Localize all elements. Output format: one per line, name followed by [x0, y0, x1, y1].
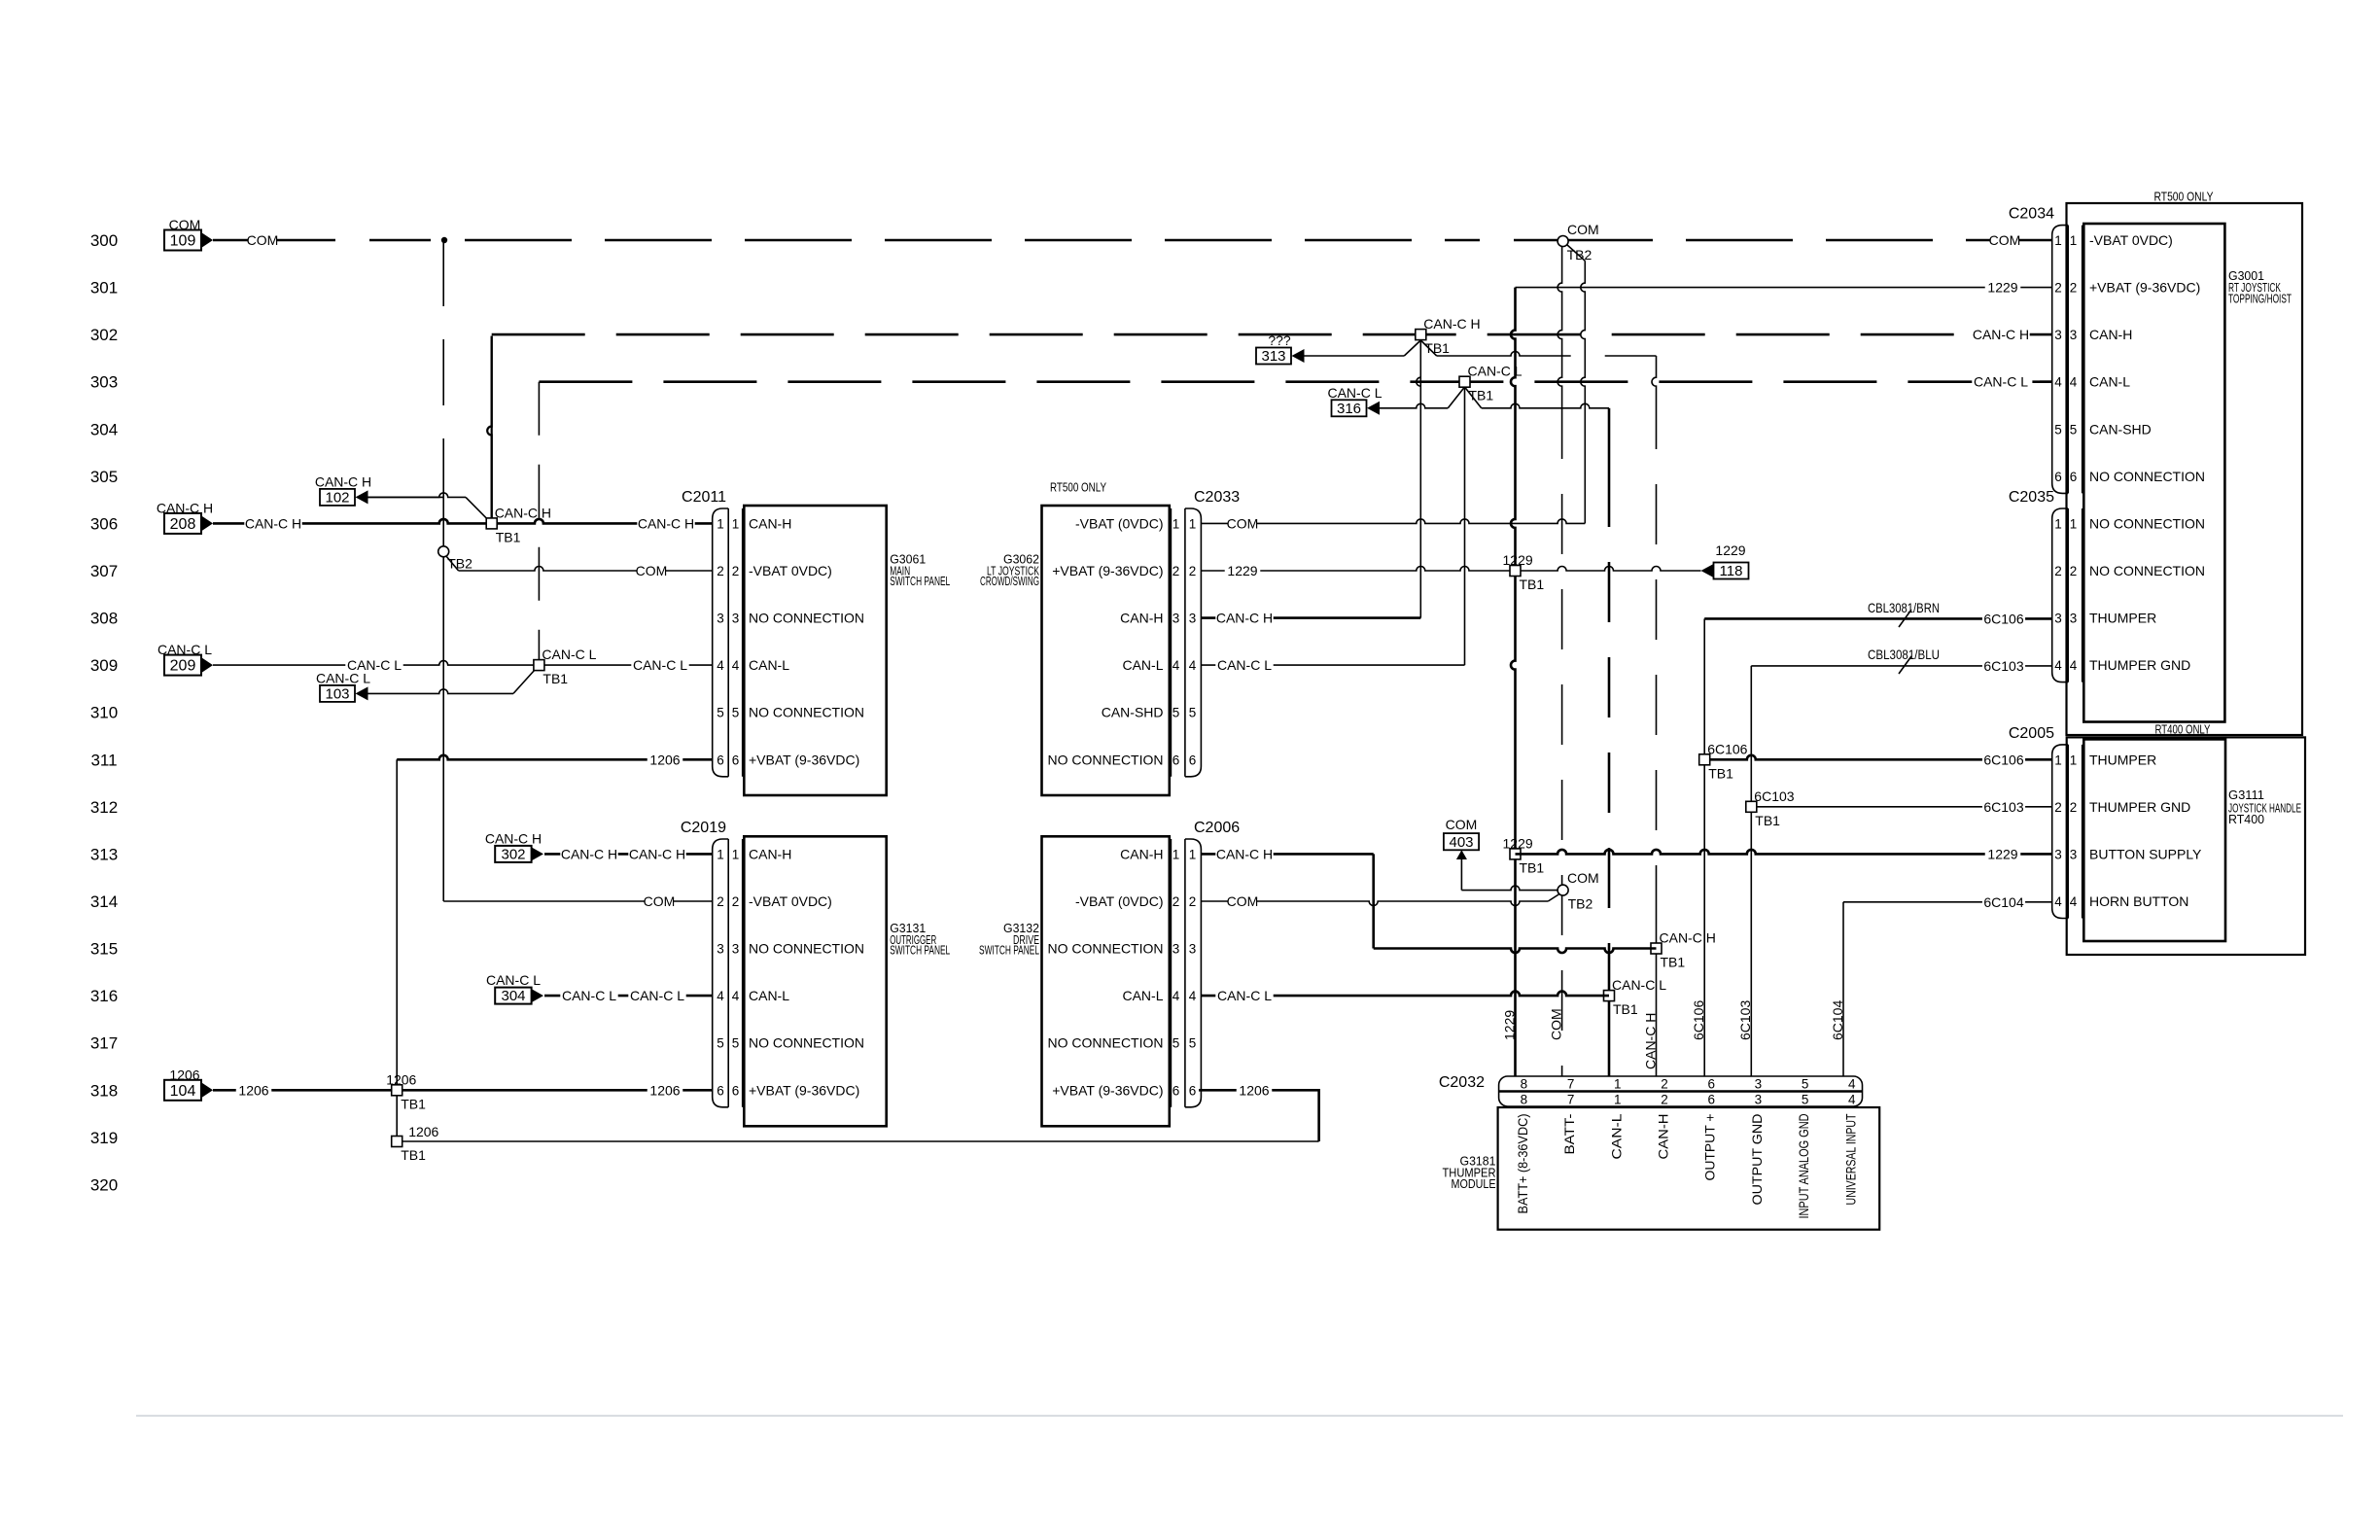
- svg-text:THUMPER: THUMPER: [2089, 752, 2156, 767]
- svg-text:2: 2: [1189, 564, 1197, 578]
- svg-text:+VBAT (9-36VDC): +VBAT (9-36VDC): [1052, 563, 1163, 578]
- svg-text:4: 4: [732, 989, 740, 1003]
- svg-text:3: 3: [2054, 328, 2062, 342]
- svg-text:1: 1: [1614, 1093, 1622, 1107]
- svg-text:INPUT ANALOG GND: INPUT ANALOG GND: [1796, 1114, 1811, 1219]
- svg-text:308: 308: [90, 610, 118, 628]
- svg-text:1: 1: [732, 516, 740, 531]
- svg-text:HORN BUTTON: HORN BUTTON: [2089, 893, 2188, 909]
- in-page reference 304 (CAN-C L) to C2019 pin 4: [486, 972, 713, 1004]
- svg-text:7: 7: [1567, 1093, 1575, 1107]
- svg-text:307: 307: [90, 562, 118, 580]
- svg-text:5: 5: [1189, 1036, 1197, 1051]
- svg-text:TOPPING/HOIST: TOPPING/HOIST: [2228, 292, 2292, 306]
- svg-text:1206: 1206: [408, 1124, 438, 1139]
- svg-text:3: 3: [2070, 328, 2078, 342]
- svg-text:NO CONNECTION: NO CONNECTION: [749, 611, 864, 626]
- svg-text:2: 2: [732, 894, 740, 909]
- svg-text:6C106: 6C106: [1983, 611, 2023, 626]
- svg-text:2: 2: [2054, 564, 2062, 578]
- svg-text:OUTPUT GND: OUTPUT GND: [1749, 1114, 1765, 1206]
- svg-text:118: 118: [1720, 563, 1743, 579]
- svg-text:-VBAT 0VDC): -VBAT 0VDC): [2089, 232, 2173, 248]
- svg-text:3: 3: [1189, 612, 1197, 626]
- off-page reference 104 (1206): [164, 1067, 213, 1101]
- svg-text:4: 4: [2054, 894, 2062, 909]
- svg-text:6: 6: [1189, 752, 1197, 767]
- svg-text:COM: COM: [247, 232, 279, 248]
- svg-text:BUTTON SUPPLY: BUTTON SUPPLY: [2089, 846, 2202, 861]
- svg-text:304: 304: [90, 420, 118, 438]
- wire CAN-C L (row 309) from ref 209 to C2011 pin 4: [213, 657, 713, 674]
- svg-text:CAN-SHD: CAN-SHD: [1102, 705, 1164, 720]
- svg-text:1: 1: [1172, 516, 1180, 531]
- svg-text:2: 2: [2070, 281, 2078, 296]
- svg-text:COM: COM: [1446, 817, 1478, 832]
- (decorative) bottom separator: [136, 1416, 2343, 1417]
- svg-text:2: 2: [717, 564, 724, 578]
- svg-text:CAN-C L: CAN-C L: [1612, 977, 1666, 993]
- wire CAN-C H riser (x=1703.5) to C2032 pin 2: [1642, 356, 1658, 1076]
- svg-text:4: 4: [1848, 1093, 1856, 1107]
- svg-text:3: 3: [717, 942, 724, 957]
- wire 1206 (row 318) from ref 104 to C2019 pin 6: [213, 1082, 713, 1099]
- svg-text:CAN-C H: CAN-C H: [1423, 316, 1480, 332]
- svg-text:4: 4: [1848, 1077, 1856, 1092]
- svg-text:3: 3: [1755, 1077, 1763, 1092]
- svg-text:CAN-C L: CAN-C L: [1327, 385, 1382, 401]
- node: junction dot on COM trunk: [441, 237, 447, 243]
- svg-text:6: 6: [732, 752, 740, 767]
- svg-text:8: 8: [1521, 1077, 1528, 1092]
- svg-text:+VBAT (9-36VDC): +VBAT (9-36VDC): [749, 1082, 859, 1098]
- svg-text:302: 302: [90, 326, 118, 344]
- svg-text:4: 4: [717, 658, 724, 673]
- svg-text:306: 306: [90, 514, 118, 533]
- svg-text:CAN-C H: CAN-C H: [561, 846, 617, 861]
- svg-text:+VBAT (9-36VDC): +VBAT (9-36VDC): [1052, 1082, 1163, 1098]
- svg-text:CAN-C H: CAN-C H: [1642, 1013, 1658, 1069]
- svg-text:TB2: TB2: [1568, 896, 1593, 912]
- svg-text:COM: COM: [1567, 870, 1599, 886]
- svg-text:SWITCH PANEL: SWITCH PANEL: [890, 943, 950, 958]
- connector C2006: [1171, 820, 1240, 1107]
- svg-text:BATT-: BATT-: [1561, 1113, 1577, 1154]
- svg-text:6: 6: [2070, 470, 2078, 484]
- svg-text:1: 1: [1614, 1077, 1622, 1092]
- svg-text:6C103: 6C103: [1754, 788, 1794, 804]
- in-page reference 102 (CAN-C H) with stub to TB1: [315, 473, 492, 523]
- svg-text:320: 320: [90, 1175, 118, 1194]
- wire COM (row 314) from C2006 pin 2 to TB2 diagonal: [1201, 893, 1548, 910]
- svg-text:CAN-L: CAN-L: [749, 988, 789, 1003]
- wire 1206 riser (x=408.2): [396, 759, 398, 1141]
- svg-text:CAN-L: CAN-L: [749, 657, 789, 673]
- svg-text:1229: 1229: [1987, 280, 2017, 296]
- svg-text:2: 2: [2054, 800, 2062, 815]
- svg-text:109: 109: [170, 233, 196, 250]
- vertical wire labels above C2032: [1501, 1000, 1845, 1040]
- svg-text:3: 3: [732, 942, 740, 957]
- wire CAN-C H (row 308) from C2033 pin 3 up to trunk TB1: [1201, 334, 1420, 626]
- svg-text:4: 4: [2054, 658, 2062, 673]
- svg-text:CAN-SHD: CAN-SHD: [2089, 421, 2152, 437]
- svg-text:6C106: 6C106: [1707, 741, 1747, 756]
- svg-text:4: 4: [1189, 989, 1197, 1003]
- wire 1229 (row 313) from TB1 to C2005 pin 3: [1516, 846, 2052, 862]
- svg-text:1: 1: [717, 847, 724, 861]
- svg-text:103: 103: [325, 685, 349, 702]
- label G3131 OUTRIGGER SWITCH PANEL: [890, 921, 950, 958]
- svg-text:TB1: TB1: [1708, 765, 1733, 781]
- wire COM vertical (x=456.2) from trunk to C2019 pin 2: [443, 240, 713, 910]
- svg-text:+VBAT (9-36VDC): +VBAT (9-36VDC): [749, 752, 859, 767]
- svg-text:COM: COM: [1989, 232, 2021, 248]
- svg-text:5: 5: [717, 706, 724, 720]
- svg-text:316: 316: [1337, 401, 1361, 417]
- svg-text:3: 3: [717, 612, 724, 626]
- svg-text:4: 4: [2070, 375, 2078, 390]
- svg-text:TB2: TB2: [447, 555, 472, 571]
- svg-text:1: 1: [2070, 233, 2078, 248]
- svg-text:5: 5: [2070, 422, 2078, 437]
- svg-text:CAN-C L: CAN-C L: [1217, 988, 1272, 1003]
- svg-text:6: 6: [732, 1083, 740, 1098]
- svg-text:315: 315: [90, 940, 118, 959]
- svg-text:2: 2: [732, 564, 740, 578]
- svg-text:CAN-C H: CAN-C H: [245, 515, 301, 531]
- wire 1206 (lower) from TB1 to C2006 pin 6: [397, 1082, 1318, 1141]
- svg-text:C2034: C2034: [2009, 206, 2054, 223]
- wire 6C106 riser (x=1753.2) to C2032 pin 6: [1703, 618, 1705, 1076]
- device G3001 RT JOYSTICK TOPPING/HOIST (box): [2083, 224, 2292, 722]
- in-page reference 118 (1229): [1701, 542, 1749, 579]
- svg-text:4: 4: [1172, 658, 1180, 673]
- svg-text:TB1: TB1: [1520, 577, 1545, 592]
- connector C2005: [2009, 725, 2202, 919]
- svg-text:CAN-H: CAN-H: [1656, 1114, 1671, 1160]
- svg-text:2: 2: [1189, 894, 1197, 909]
- svg-text:TB1: TB1: [1755, 813, 1780, 828]
- svg-text:208: 208: [170, 516, 196, 533]
- svg-text:CAN-C H: CAN-C H: [485, 830, 542, 846]
- svg-text:CAN-H: CAN-H: [2089, 327, 2132, 342]
- terminal TB1 (1206, y=1174): [392, 1124, 439, 1163]
- svg-text:CROWD/SWING: CROWD/SWING: [980, 574, 1039, 588]
- svg-text:4: 4: [1189, 658, 1197, 673]
- svg-text:1: 1: [2054, 752, 2062, 767]
- svg-text:6: 6: [1172, 752, 1180, 767]
- svg-text:8: 8: [1521, 1093, 1528, 1107]
- svg-text:C2032: C2032: [1439, 1074, 1485, 1091]
- svg-text:NO CONNECTION: NO CONNECTION: [749, 705, 864, 720]
- terminal TB1 (CAN-C H, x=505.7): [486, 505, 551, 544]
- svg-text:4: 4: [717, 989, 724, 1003]
- svg-text:6C103: 6C103: [1737, 1000, 1753, 1040]
- off-page reference 109 (COM): [164, 217, 213, 251]
- wire COM vertical (x=1606.6) from TB2 to C2032 pin 7: [1557, 246, 1562, 1076]
- terminal TB1 (CAN-C L on trunk row 303): [1459, 364, 1522, 403]
- svg-text:CAN-H: CAN-H: [1120, 611, 1163, 626]
- svg-text:COM: COM: [1227, 893, 1259, 909]
- svg-text:1206: 1206: [238, 1082, 268, 1098]
- terminal TB1 (6C103, row 312): [1746, 788, 1795, 828]
- svg-text:RT400: RT400: [2228, 812, 2264, 826]
- svg-text:317: 317: [90, 1034, 118, 1053]
- wire 6C104 (row 314) to C2005 pin 4 and riser to C2032 pin 4: [1843, 893, 2052, 1076]
- svg-text:SWITCH PANEL: SWITCH PANEL: [979, 943, 1039, 958]
- terminal TB1 (CAN-C H, row 315): [1651, 930, 1716, 970]
- connector C2011: [682, 489, 743, 777]
- wire 6C103 (row 312) from TB1 to C2005 pin 2: [1751, 798, 2051, 815]
- svg-text:TB1: TB1: [496, 529, 521, 544]
- svg-text:1: 1: [732, 847, 740, 861]
- svg-text:5: 5: [1802, 1077, 1809, 1092]
- in-page reference 302 (CAN-C H) to C2019 pin 1: [485, 830, 713, 862]
- svg-text:1229: 1229: [1503, 552, 1533, 568]
- svg-text:4: 4: [732, 658, 740, 673]
- svg-text:5: 5: [732, 706, 740, 720]
- svg-text:RT500 ONLY: RT500 ONLY: [2154, 190, 2214, 204]
- terminal TB2 (COM on trunk row 300): [1557, 236, 1592, 263]
- wire CAN-C L (row 309) from C2033 pin 4 up to trunk TB1: [1201, 382, 1464, 674]
- svg-text:CAN-L: CAN-L: [1122, 657, 1163, 673]
- svg-text:313: 313: [1261, 348, 1285, 365]
- svg-text:CAN-C L: CAN-C L: [630, 988, 684, 1003]
- svg-text:NO CONNECTION: NO CONNECTION: [749, 941, 864, 957]
- svg-text:5: 5: [1172, 706, 1180, 720]
- svg-text:3: 3: [1172, 612, 1180, 626]
- svg-text:NO CONNECTION: NO CONNECTION: [2089, 563, 2205, 578]
- svg-text:C2033: C2033: [1194, 489, 1240, 506]
- svg-text:2: 2: [1172, 564, 1180, 578]
- svg-text:CAN-C L: CAN-C L: [562, 988, 616, 1003]
- svg-text:CAN-C L: CAN-C L: [316, 670, 370, 685]
- svg-text:6: 6: [1707, 1093, 1715, 1107]
- svg-text:300: 300: [90, 231, 118, 250]
- svg-text:-VBAT 0VDC): -VBAT 0VDC): [749, 563, 832, 578]
- svg-text:CAN-H: CAN-H: [1120, 846, 1163, 861]
- svg-text:3: 3: [1755, 1093, 1763, 1107]
- wire COM (row 306) from C2033 pin 1 to TB2 riser: [1201, 245, 1585, 532]
- svg-text:THUMPER: THUMPER: [2089, 611, 2156, 626]
- connector C2032: [1439, 1074, 1863, 1107]
- svg-text:1206: 1206: [649, 1082, 680, 1098]
- svg-text:NO CONNECTION: NO CONNECTION: [1048, 941, 1164, 957]
- svg-text:SWITCH PANEL: SWITCH PANEL: [890, 574, 950, 588]
- svg-text:THUMPER GND: THUMPER GND: [2089, 799, 2190, 815]
- svg-text:NO CONNECTION: NO CONNECTION: [2089, 469, 2205, 484]
- wire 1206 (row 311) from C2011 pin 6 to riser: [397, 752, 713, 768]
- svg-text:THUMPER GND: THUMPER GND: [2089, 657, 2190, 673]
- svg-text:2: 2: [2054, 281, 2062, 296]
- svg-text:311: 311: [90, 751, 117, 769]
- in-page reference 316 (CAN-C L) stub from CAN-C L TB1: [1327, 385, 1609, 417]
- svg-text:1: 1: [1189, 847, 1197, 861]
- svg-text:6: 6: [1189, 1083, 1197, 1098]
- svg-text:CAN-C H: CAN-C H: [1660, 930, 1716, 946]
- svg-text:1: 1: [2070, 516, 2078, 531]
- svg-text:1206: 1206: [649, 752, 680, 767]
- svg-text:5: 5: [2054, 422, 2062, 437]
- svg-text:6: 6: [1707, 1077, 1715, 1092]
- svg-text:CAN-H: CAN-H: [749, 846, 791, 861]
- svg-text:2: 2: [717, 894, 724, 909]
- connector C2033: [1171, 489, 1240, 777]
- wire: vertical CAN-C H drop to TB1 (x=505.7): [487, 336, 491, 524]
- svg-text:-VBAT 0VDC): -VBAT 0VDC): [749, 893, 832, 909]
- svg-text:3: 3: [2054, 612, 2062, 626]
- svg-text:1: 1: [1172, 847, 1180, 861]
- svg-text:CAN-L: CAN-L: [2089, 374, 2130, 390]
- svg-text:2: 2: [1661, 1093, 1668, 1107]
- wire CAN-C L (row 316) from C2006 pin 4 to TB1: [1201, 988, 1609, 1004]
- svg-text:4: 4: [2054, 375, 2062, 390]
- terminal TB1 (CAN-C H on trunk row 302): [1416, 316, 1481, 356]
- svg-text:6: 6: [2054, 470, 2062, 484]
- terminal TB2 (COM, y=915.6): [1557, 885, 1592, 912]
- svg-text:CAN-C H: CAN-C H: [1216, 846, 1273, 861]
- svg-text:303: 303: [90, 373, 118, 392]
- wire 6C103 riser (x=1801.3) to C2032 pin 3: [1750, 666, 1752, 1076]
- svg-text:318: 318: [90, 1081, 118, 1100]
- in-page reference 313 (???) stub from CAN-C H TB1: [1256, 332, 1657, 365]
- wire 1229 (row 301 and riser x=1558.5): [1511, 279, 2052, 1076]
- svg-text:1229: 1229: [1501, 1010, 1517, 1040]
- svg-text:CAN-L: CAN-L: [1608, 1113, 1624, 1159]
- svg-text:RT400 ONLY: RT400 ONLY: [2155, 722, 2211, 737]
- wire CAN-C L trunk (row 303, dashed): [539, 380, 2051, 383]
- device G3132 DRIVE SWITCH PANEL (box): [1042, 836, 1170, 1126]
- svg-text:C2006: C2006: [1194, 820, 1240, 836]
- svg-text:3: 3: [2070, 847, 2078, 861]
- label G3062 LT JOYSTICK CROWD/SWING: [980, 552, 1039, 589]
- svg-text:2: 2: [1172, 894, 1180, 909]
- svg-text:6C103: 6C103: [1983, 799, 2023, 815]
- svg-text:COM: COM: [1227, 515, 1259, 531]
- svg-text:5: 5: [732, 1036, 740, 1051]
- wire CAN-C H (row 306) from ref 208 to C2011 pin 1: [213, 515, 713, 532]
- svg-text:4: 4: [2070, 658, 2078, 673]
- svg-text:5: 5: [717, 1036, 724, 1051]
- svg-text:TB1: TB1: [401, 1147, 426, 1163]
- svg-text:TB1: TB1: [1661, 955, 1686, 970]
- svg-text:6: 6: [1172, 1083, 1180, 1098]
- svg-text:1: 1: [2070, 752, 2078, 767]
- svg-text:5: 5: [1189, 706, 1197, 720]
- terminal TB1 (1229, row 313): [1503, 835, 1545, 875]
- wire CBL3081/BLU 6C103 (row 309) to C2035 pin 4: [1751, 647, 2051, 674]
- svg-text:NO CONNECTION: NO CONNECTION: [749, 1035, 864, 1051]
- svg-text:102: 102: [325, 489, 349, 506]
- wire COM trunk (row 300, dashed): [213, 232, 2052, 249]
- device G3061 MAIN SWITCH PANEL (box): [744, 506, 886, 795]
- svg-text:TB1: TB1: [401, 1096, 426, 1111]
- svg-text:C2035: C2035: [2009, 489, 2054, 506]
- svg-text:3: 3: [1189, 942, 1197, 957]
- svg-text:3: 3: [732, 612, 740, 626]
- svg-text:TB1: TB1: [1424, 340, 1450, 356]
- wire CAN-C H (rows 313-315) from C2006 pin 1 to TB1: [1201, 846, 1656, 953]
- device G3131 OUTRIGGER SWITCH PANEL (box): [744, 836, 886, 1126]
- device G3111 JOYSTICK HANDLE RT400 (box): [2083, 739, 2301, 941]
- svg-text:6C106: 6C106: [1691, 1000, 1706, 1040]
- svg-text:COM: COM: [1567, 222, 1599, 237]
- wire CAN-C H trunk (row 302, dashed): [491, 336, 493, 518]
- svg-text:CAN-C L: CAN-C L: [1217, 657, 1272, 673]
- outer box RT500 ONLY (right joystick): [2067, 190, 2303, 736]
- in-page reference 103 (CAN-C L) with stub to TB1: [316, 665, 539, 702]
- svg-text:3: 3: [2054, 847, 2062, 861]
- connector C2035: [2009, 489, 2205, 682]
- svg-text:1229: 1229: [1987, 846, 2017, 861]
- wire COM (row 307) from TB2 to C2011 pin 2: [459, 563, 713, 579]
- svg-text:1206: 1206: [386, 1071, 416, 1087]
- svg-text:313: 313: [90, 845, 118, 863]
- svg-text:C2005: C2005: [2009, 725, 2054, 742]
- svg-text:COM: COM: [636, 563, 668, 578]
- svg-text:-VBAT (0VDC): -VBAT (0VDC): [1075, 515, 1164, 531]
- svg-text:314: 314: [90, 892, 118, 911]
- svg-text:4: 4: [1172, 989, 1180, 1003]
- svg-text:CAN-L: CAN-L: [1122, 988, 1163, 1003]
- connector C2034: [2009, 206, 2205, 494]
- svg-text:CAN-C H: CAN-C H: [629, 846, 685, 861]
- svg-text:2: 2: [2070, 564, 2078, 578]
- svg-text:CAN-C L: CAN-C L: [633, 657, 687, 673]
- svg-text:CAN-C H: CAN-C H: [1973, 327, 2029, 342]
- svg-text:1: 1: [717, 516, 724, 531]
- svg-text:CAN-C L: CAN-C L: [542, 647, 596, 662]
- svg-text:2: 2: [2070, 800, 2078, 815]
- svg-text:TB1: TB1: [1520, 859, 1545, 875]
- label G3061 MAIN SWITCH PANEL: [890, 552, 950, 589]
- svg-text:304: 304: [501, 988, 525, 1004]
- label G3132 DRIVE SWITCH PANEL: [979, 921, 1039, 958]
- svg-text:7: 7: [1567, 1077, 1575, 1092]
- svg-text:209: 209: [170, 658, 196, 675]
- terminal TB1 (CAN-C L, row 316): [1604, 977, 1667, 1017]
- svg-text:6C104: 6C104: [1983, 894, 2023, 910]
- svg-text:1229: 1229: [1715, 542, 1745, 558]
- svg-text:6C104: 6C104: [1830, 1000, 1845, 1040]
- in-page reference 403 (COM) with up-arrow to lower TB2: [1444, 817, 1558, 891]
- svg-text:NO CONNECTION: NO CONNECTION: [1048, 1035, 1164, 1051]
- svg-text:1229: 1229: [1503, 835, 1533, 851]
- svg-text:TB2: TB2: [1567, 247, 1592, 262]
- svg-text:RT500 ONLY: RT500 ONLY: [1050, 480, 1106, 495]
- wire COM diagonal from row 314 to lower TB2: [1548, 894, 1559, 902]
- wire CAN-C L riser (x=1655) to C2032 pin 1: [1608, 408, 1611, 1076]
- svg-text:319: 319: [90, 1129, 118, 1147]
- svg-text:6C103: 6C103: [1983, 658, 2023, 674]
- svg-text:1229: 1229: [1227, 563, 1257, 578]
- svg-text:3: 3: [1172, 942, 1180, 957]
- svg-text:312: 312: [90, 798, 118, 817]
- terminal TB1 (1206, row 318): [386, 1071, 426, 1111]
- svg-text:MODULE: MODULE: [1452, 1176, 1496, 1191]
- device G3181 THUMPER MODULE (box): [1443, 1107, 1880, 1230]
- svg-text:5: 5: [1172, 1036, 1180, 1051]
- svg-text:-VBAT (0VDC): -VBAT (0VDC): [1075, 893, 1164, 909]
- svg-text:CBL3081/BLU: CBL3081/BLU: [1868, 647, 1940, 662]
- svg-text:NO CONNECTION: NO CONNECTION: [2089, 515, 2205, 531]
- svg-text:CAN-C H: CAN-C H: [1216, 611, 1273, 626]
- svg-text:5: 5: [1802, 1093, 1809, 1107]
- outer box RT400 ONLY (joystick handle): [2067, 722, 2305, 956]
- svg-text:CAN-C L: CAN-C L: [1974, 374, 2028, 390]
- svg-text:COM: COM: [644, 893, 676, 909]
